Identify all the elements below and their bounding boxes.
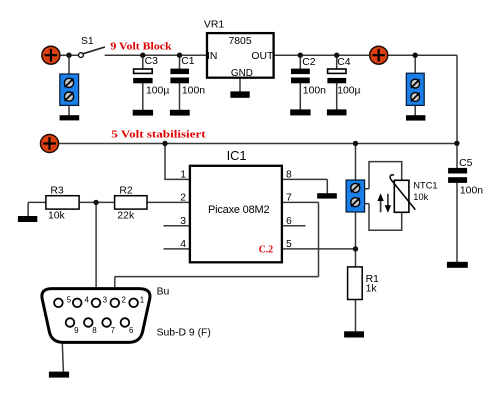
svg-text:100n: 100n [460,186,483,197]
svg-text:8: 8 [286,170,292,181]
svg-text:9 Volt Block: 9 Volt Block [110,40,172,52]
svg-text:100n: 100n [182,86,205,97]
svg-text:4: 4 [180,239,186,250]
svg-text:1: 1 [180,170,186,181]
svg-text:C5: C5 [459,158,473,169]
svg-text:6: 6 [286,216,292,227]
svg-text:C1: C1 [181,56,195,67]
svg-text:2: 2 [121,296,126,305]
svg-text:C4: C4 [337,57,351,68]
svg-text:8: 8 [92,326,97,335]
svg-text:C.2: C.2 [259,244,274,256]
svg-text:R2: R2 [119,186,133,197]
svg-text:100n: 100n [303,86,326,97]
svg-text:S1: S1 [81,36,94,47]
svg-text:IN: IN [207,51,217,62]
svg-text:100µ: 100µ [146,86,169,97]
svg-text:9: 9 [74,326,79,335]
svg-text:3: 3 [103,296,108,305]
svg-text:7: 7 [286,193,292,204]
svg-text:7: 7 [111,326,116,335]
svg-text:Bu: Bu [157,287,170,298]
svg-text:10k: 10k [413,192,428,202]
svg-text:5 Volt stabilisiert: 5 Volt stabilisiert [111,129,206,141]
svg-text:5: 5 [286,239,292,250]
svg-text:1k: 1k [366,284,378,295]
svg-text:C3: C3 [145,56,159,67]
svg-text:3: 3 [180,216,186,227]
svg-text:OUT: OUT [251,51,274,62]
svg-text:1: 1 [140,296,145,305]
svg-text:22k: 22k [117,210,135,221]
svg-text:GND: GND [231,68,253,79]
svg-text:100µ: 100µ [337,86,360,97]
svg-text:7805: 7805 [229,36,252,47]
svg-text:5: 5 [67,296,72,305]
svg-text:NTC1: NTC1 [413,180,437,190]
svg-text:C2: C2 [302,57,316,68]
svg-text:Sub-D 9 (F): Sub-D 9 (F) [157,328,211,339]
svg-text:R3: R3 [50,186,64,197]
svg-text:10k: 10k [48,210,66,221]
svg-text:2: 2 [180,193,186,204]
svg-text:6: 6 [129,326,134,335]
svg-text:4: 4 [84,296,89,305]
svg-text:IC1: IC1 [227,148,247,163]
svg-text:Picaxe 08M2: Picaxe 08M2 [208,204,269,216]
svg-text:VR1: VR1 [204,20,224,31]
